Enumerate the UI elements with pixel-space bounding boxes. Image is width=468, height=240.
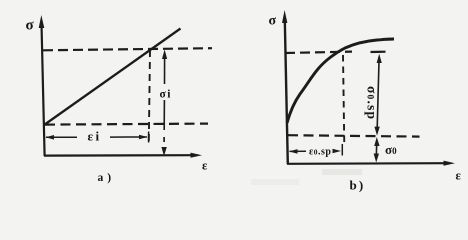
right x-axis xyxy=(287,161,455,166)
top dashed horizontal (right) xyxy=(285,52,352,53)
vertical dashed at curve crossing (right) xyxy=(343,55,344,146)
saturating curve xyxy=(287,39,394,123)
epsilon-0.sp dimension arrow xyxy=(289,144,342,156)
svg-text:σ: σ xyxy=(26,18,35,34)
epsilon-i dimension arrow xyxy=(46,132,149,143)
straight line (linear sigma-epsilon) xyxy=(44,29,181,126)
top dashed horizontal (left) xyxy=(43,48,212,50)
lower dashed horizontal (left) xyxy=(45,124,208,125)
sigma-0 dimension segment xyxy=(374,137,380,163)
vertical dashed at intersection (left) xyxy=(149,50,150,142)
svg-text:b): b) xyxy=(350,178,366,193)
svg-text:σ: σ xyxy=(269,14,277,29)
lower dashed horizontal (right) xyxy=(288,135,420,136)
left x-axis xyxy=(44,153,202,158)
svg-text:ε: ε xyxy=(456,169,462,183)
faint scan smudge above b) xyxy=(322,169,362,175)
faint scan smudge right of a) xyxy=(251,179,299,185)
svg-text:σi: σi xyxy=(160,89,172,101)
right y-axis xyxy=(282,10,288,164)
left y-axis xyxy=(39,15,45,156)
svg-text:ε: ε xyxy=(202,159,208,173)
svg-text:εi: εi xyxy=(88,129,102,144)
svg-text:ε0.sp: ε0.sp xyxy=(309,147,331,158)
svg-text:σ0.sp: σ0.sp xyxy=(365,86,380,120)
sigma-0.sp dimension line xyxy=(374,54,381,136)
T-bar at top of sigma-sp dimension xyxy=(371,51,386,53)
sigma-i dimension line xyxy=(161,50,167,157)
svg-text:a): a) xyxy=(98,172,116,184)
